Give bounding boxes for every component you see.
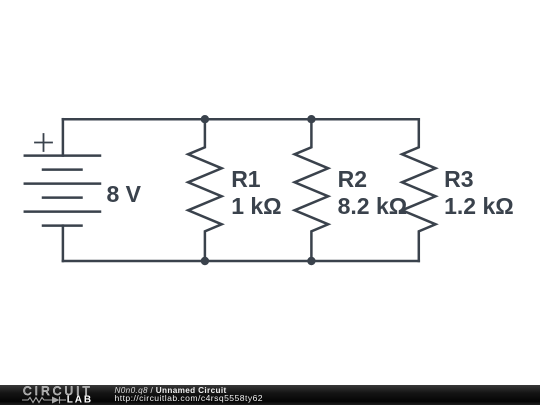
- node junction bottom R1: [201, 257, 209, 265]
- node junction top R1: [201, 115, 209, 123]
- svg-text:1 kΩ: 1 kΩ: [231, 193, 281, 219]
- battery V1 plates: [25, 156, 100, 226]
- svg-text:R1: R1: [231, 166, 261, 192]
- footer title line: [115, 386, 227, 395]
- footer url line: [115, 394, 264, 403]
- svg-text:8 V: 8 V: [107, 181, 142, 207]
- svg-text:R3: R3: [444, 166, 473, 192]
- resistor R2: [295, 119, 329, 261]
- battery V1 bottom lead wire: [62, 226, 65, 261]
- svg-text:R2: R2: [338, 166, 367, 192]
- svg-text:LAB: LAB: [67, 395, 93, 406]
- svg-text:8.2 kΩ: 8.2 kΩ: [338, 193, 408, 219]
- battery V1 plus sign: [35, 134, 52, 151]
- node junction top R2: [307, 115, 315, 123]
- battery V1 top lead wire: [62, 119, 65, 155]
- resistor R3: [402, 119, 436, 261]
- logo resistor squiggle and diode: [22, 397, 66, 404]
- footer bar: [0, 385, 540, 406]
- wire: bottom rail from battery - to R3: [63, 260, 419, 263]
- node junction bottom R2: [307, 257, 315, 265]
- CircuitLab logo: [18, 383, 118, 407]
- wire: top rail from battery + to R3: [63, 118, 419, 121]
- resistor R1: [188, 119, 222, 261]
- svg-text:1.2 kΩ: 1.2 kΩ: [444, 193, 514, 219]
